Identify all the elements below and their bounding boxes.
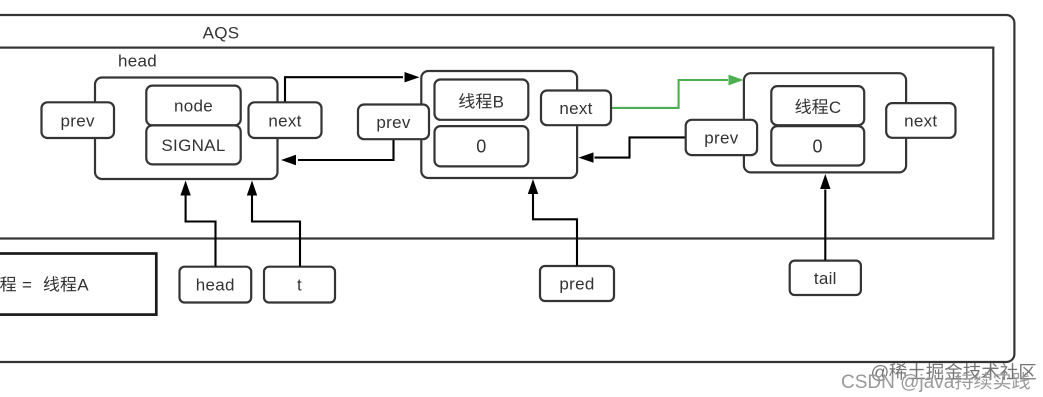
watermark CSDN @java持续实践 <box>841 372 1030 393</box>
waitStatus 0 box of B <box>435 126 529 166</box>
svg-text:tail: tail <box>814 269 837 288</box>
node B container <box>421 71 577 178</box>
svg-text:head: head <box>118 52 157 71</box>
svg-text:0: 0 <box>476 137 486 157</box>
thread A assignment box <box>0 254 156 315</box>
svg-text:CSDN @java: CSDN @java <box>841 372 955 393</box>
svg-text:C: C <box>829 98 842 117</box>
svg-text:next: next <box>559 99 592 118</box>
tail pointer box <box>790 261 861 295</box>
arrow t pointer to head node <box>252 195 300 266</box>
watermark juejin 稀土掘金技术社区 <box>871 362 1036 383</box>
thread B box <box>435 80 529 120</box>
svg-text:AQS: AQS <box>203 23 240 42</box>
svg-text:A: A <box>77 275 89 294</box>
SIGNAL box <box>146 125 240 164</box>
prev box of head node <box>42 102 115 138</box>
node C container <box>744 73 906 172</box>
thread B label 线程B <box>459 93 475 109</box>
svg-text:B: B <box>493 92 505 111</box>
green arrow B.next to node C <box>612 80 729 108</box>
svg-text:=: = <box>22 275 32 294</box>
thread C label 线程C <box>795 98 811 114</box>
svg-text:t: t <box>297 276 302 295</box>
svg-text:prev: prev <box>704 129 738 148</box>
arrow pred pointer to node B <box>533 194 577 266</box>
next box of node B <box>541 91 611 126</box>
svg-text:node: node <box>174 97 213 116</box>
inner AQS body box <box>0 48 993 239</box>
pred pointer box <box>540 266 614 301</box>
svg-text:prev: prev <box>376 113 410 132</box>
arrow tail pointer to node C <box>824 190 826 261</box>
svg-text:head: head <box>196 276 235 295</box>
arrow B.prev to head node <box>298 140 394 161</box>
head node container <box>95 78 278 180</box>
arrow head pointer to head node <box>186 195 216 266</box>
svg-text:SIGNAL: SIGNAL <box>161 136 225 155</box>
arrow head.next to node B <box>285 77 403 101</box>
waitStatus 0 box of C <box>771 126 864 165</box>
svg-text:prev: prev <box>61 111 95 130</box>
prev box of node C <box>686 120 757 155</box>
svg-text:pred: pred <box>559 275 594 294</box>
next box of head node <box>249 102 322 138</box>
t pointer box <box>264 267 335 303</box>
arrow C.prev to node B <box>595 137 686 157</box>
thread C box <box>771 86 864 125</box>
head pointer box <box>180 267 252 303</box>
prev box of node B <box>358 105 429 140</box>
node box <box>146 86 240 126</box>
next box of node C <box>886 103 955 138</box>
svg-text:next: next <box>904 112 937 131</box>
svg-text:0: 0 <box>813 136 823 156</box>
svg-text:next: next <box>268 112 301 131</box>
